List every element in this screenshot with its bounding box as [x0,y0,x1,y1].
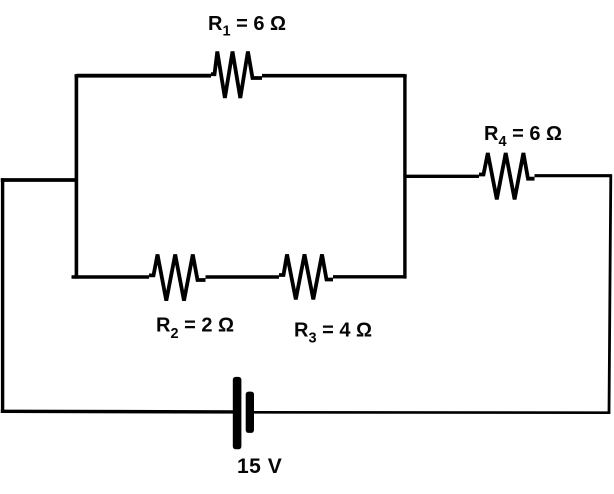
svg-text:R3 = 4 Ω: R3 = 4 Ω [294,320,372,347]
resistor R2 [149,255,206,301]
wire: inner loop top-right segment [262,74,405,76]
wire: left branch horizontal to outer loop [1,178,77,182]
svg-text:R4 = 6 Ω: R4 = 6 Ω [484,123,562,150]
resistor R1 [211,52,262,99]
wire: outer loop left vertical [1,178,4,413]
wire: right branch horizontal left of R4 [405,175,479,178]
wire: inner loop left vertical [75,74,79,278]
wire: inner loop top-left segment [76,74,211,76]
wire: inner loop right vertical [403,74,406,278]
battery V1 short plate [246,392,254,433]
wire: outer loop right vertical [609,175,611,414]
svg-text:R1 = 6 Ω: R1 = 6 Ω [208,13,286,40]
resistor R4 [479,153,535,199]
svg-text:R2 = 2 Ω: R2 = 2 Ω [156,315,234,343]
svg-text:15 V: 15 V [237,455,282,478]
battery V1 long plate [233,377,242,449]
wire: inner loop bottom-right segment [333,275,407,278]
wire: right branch horizontal right of R4 [535,174,612,177]
resistor R3 [279,254,333,299]
wire: outer loop bottom-right segment from battery [252,411,610,414]
wire: outer loop bottom-left segment to battery [1,410,235,414]
wire: bottom branch middle segment [206,275,280,278]
wire: inner loop bottom-left segment [72,275,150,279]
